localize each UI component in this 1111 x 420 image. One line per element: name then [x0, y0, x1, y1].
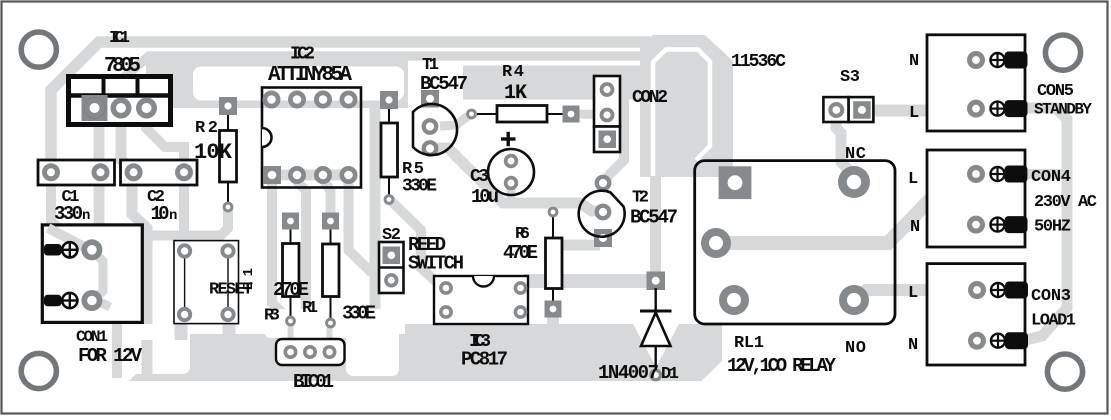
svg-text:IC1: IC1 [109, 29, 130, 48]
wire T2 emitter left under R6 [554, 240, 600, 251]
connector CON3 body [927, 264, 1025, 365]
svg-text:D1: D1 [661, 365, 679, 384]
wire S3 left pad down to relay NC [836, 112, 853, 175]
pad CON5-N entry [1005, 52, 1028, 69]
CON5-N screw [991, 53, 1005, 67]
wire R6 bottom pad into ground [547, 303, 559, 336]
wire R5 bottom pad to IC3 pin1 [389, 199, 447, 288]
wire band C to pour (R4 region) [463, 66, 648, 100]
pad RESET-4 [220, 307, 235, 322]
relay RL1 body [695, 161, 895, 324]
resistor R1 [323, 222, 340, 319]
svg-text:RL1: RL1 [734, 334, 764, 353]
pad IC2-5 [340, 91, 358, 109]
node slab window keepout [193, 67, 404, 101]
pad CON5-L entry [1005, 100, 1028, 117]
pad S3-2 square [853, 101, 871, 119]
pad R6 bottom square [545, 301, 562, 318]
wire C3 minus stub down [507, 183, 516, 202]
pad R2 top square [219, 97, 237, 115]
svg-text:LOAD1: LOAD1 [1031, 312, 1076, 331]
pad T2-emitter square [594, 229, 612, 247]
transistor T1 body BC547 [413, 104, 457, 155]
node ground keepout left of IC3 [346, 309, 399, 376]
wire R2 top pad joins slab (stub) [223, 99, 233, 107]
wire CON2 pin3 down to T2 collector [604, 99, 624, 182]
svg-text:R1: R1 [302, 299, 318, 318]
svg-text:T2: T2 [632, 189, 649, 208]
pad RESET-3 [177, 307, 192, 322]
node pour clearance gap [653, 50, 710, 177]
pad R6 top [548, 207, 559, 218]
svg-text:12V,1CO RELAY: 12V,1CO RELAY [727, 355, 837, 377]
pad C3-minus [504, 176, 518, 190]
CON4-N screw [991, 218, 1005, 232]
mounting hole top-left [21, 32, 56, 67]
pad T2-base [595, 204, 612, 221]
capacitor C3 body [488, 149, 534, 195]
wire bottom ground band [129, 324, 702, 381]
wire IC2 pin4 down to S2 column [349, 179, 373, 273]
svg-text:FOR 12V: FOR 12V [78, 345, 143, 367]
pad CON1-2 [81, 290, 102, 311]
pad CON2-1 [600, 82, 615, 97]
svg-text:10u: 10u [471, 186, 499, 208]
svg-text:CON4: CON4 [1031, 168, 1071, 187]
svg-text:CON5: CON5 [1037, 82, 1074, 101]
CON5-L screw [991, 102, 1005, 116]
pushbutton RESET body [174, 241, 239, 324]
pad CON4-L [967, 165, 985, 183]
svg-text:1K: 1K [504, 82, 527, 105]
wire CON1 pad1 diagonal (inside body) [48, 228, 90, 250]
pad T1-emitter [422, 140, 439, 157]
svg-text:7805: 7805 [104, 55, 141, 78]
wire reset column re-entry [142, 340, 153, 378]
resistor R4 [477, 106, 566, 123]
pad CON3-L [968, 281, 986, 299]
pad CON4-L entry [1005, 166, 1028, 183]
pad CON3-L entry [1005, 282, 1028, 299]
pad T1-collector square [421, 90, 439, 108]
pad R1 top square [322, 213, 339, 230]
optocoupler IC3 body PC817 [434, 276, 528, 324]
pad R3 top square [282, 213, 299, 230]
wire S3 right pad to CON5 L [866, 105, 972, 117]
svg-text:n: n [82, 208, 90, 224]
pad CON3-N entry [1005, 332, 1028, 349]
mounting hole bottom-right [1047, 354, 1082, 389]
svg-text:L: L [909, 104, 919, 123]
svg-text:10K: 10K [194, 140, 233, 165]
CON3-L screw [991, 283, 1005, 297]
pad RESET-2 [220, 243, 235, 258]
CON1 wire-entry wedge 2 [44, 295, 62, 307]
svg-text:CON1: CON1 [76, 328, 108, 346]
wire T1 emitter to T2 base [432, 148, 601, 211]
pad IC2-2 [288, 166, 306, 184]
svg-text:R4: R4 [502, 63, 524, 82]
wire CON1 band re-entry [112, 340, 122, 378]
wire CON1 pad1 to pad2 [94, 253, 103, 299]
svg-text:L: L [908, 284, 918, 303]
wire slab around IC2 window [146, 52, 408, 108]
IC2 notch [262, 128, 272, 147]
wire IC2 pin2 down to BIC01 middle pad [296, 180, 310, 351]
pad IC1-2 [111, 98, 132, 119]
pad CON2-2 [600, 108, 615, 123]
pad S3-1 [828, 102, 844, 118]
svg-text:NO: NO [845, 339, 866, 358]
CON3-N screw [991, 334, 1005, 348]
svg-text:STANDBY: STANDBY [1034, 101, 1092, 119]
transistor T2 body BC547 [579, 191, 625, 237]
mounting hole bottom-left [21, 353, 56, 388]
svg-text:330E: 330E [342, 303, 376, 325]
wire IC1 pad2 to C2 left pad and down right of CON1 [121, 123, 147, 378]
wire CON1 pad2 down to ground band [93, 301, 117, 378]
svg-text:IC2: IC2 [290, 45, 315, 65]
svg-text:ATTINY85A: ATTINY85A [268, 64, 352, 87]
switch S2 body [379, 242, 404, 293]
pad IC3-4 [514, 281, 528, 295]
pad CON4-N [967, 216, 985, 234]
pad C3-plus [504, 154, 518, 168]
svg-text:N: N [908, 336, 918, 355]
pad R3 bottom [285, 316, 296, 327]
wire T1 base to R4 left pad [440, 116, 468, 126]
pad R4 right square [563, 106, 580, 123]
pad BIC01-3 [323, 345, 337, 359]
pad BIC01-1 [284, 345, 298, 359]
connector CON5 body [927, 35, 1025, 131]
svg-text:230V AC: 230V AC [1034, 193, 1097, 212]
CON1 screw symbol 2 [62, 293, 77, 308]
pad CON1-1 [81, 239, 102, 260]
wire relay coil pin to CON4 L [716, 174, 1004, 243]
svg-text:10: 10 [151, 203, 170, 225]
svg-text:BC547: BC547 [420, 73, 468, 95]
regulator IC1 body 7805 [68, 76, 171, 125]
svg-text:BC547: BC547 [630, 207, 678, 229]
pad IC2-8 [263, 91, 281, 109]
wire C1 left pad into CON1 pad1 diagonal [51, 170, 90, 250]
wire IC3 pin3 into ground [516, 316, 526, 336]
pad IC1-3 [136, 98, 157, 119]
svg-text:NC: NC [845, 145, 866, 164]
pad S2-1 square [383, 247, 401, 265]
wire pour polygon near relay [640, 35, 733, 177]
svg-text:L: L [908, 170, 918, 189]
pad S2-2 [384, 273, 398, 287]
wire R1 pad to BIC01 pin3 [327, 326, 333, 347]
pad CON5-L [967, 100, 985, 118]
pad C2-1 [125, 163, 143, 181]
node ground keepout near CON1 [124, 324, 190, 374]
pad IC2-6 [314, 91, 332, 109]
pad RL1 coil- [701, 228, 731, 258]
IC IC2 ATTINY85A body [262, 88, 361, 188]
pad IC3-1 [439, 281, 453, 295]
wire R4 right pad to CON2 pin2 [573, 110, 604, 120]
svg-text:SWITCH: SWITCH [408, 253, 464, 275]
wire ground band right lobe under D1 [630, 324, 722, 381]
wire IC3 pin4 to D1 anode pad [524, 274, 652, 288]
wire relay NO pad to CON3 L [855, 290, 974, 298]
switch S3 body [823, 97, 873, 122]
pad C1-1 [42, 163, 60, 181]
svg-text:270E: 270E [273, 279, 309, 301]
wire CON5 L feed to right bus [1021, 108, 1067, 341]
node ground keepout notch at D1 [633, 324, 679, 367]
svg-text:PC817: PC817 [461, 349, 508, 371]
CON1 screw symbol 1 [62, 242, 77, 257]
svg-text:CON3: CON3 [1031, 287, 1071, 306]
wire R3 pad to BIC01 pin1 [288, 324, 294, 347]
pad D1 cathode square [647, 272, 666, 291]
resistor R2 [220, 112, 237, 203]
capacitor C1 body [38, 160, 115, 185]
connector CON1 body [42, 225, 142, 323]
resistor R5 [381, 105, 398, 196]
wire right bus stub to CON4 L [1028, 169, 1063, 179]
wire IC1 pad1 to C1 right pad [94, 123, 105, 224]
wire top rail A from C1 to power pour [51, 42, 650, 170]
pad CON5-N [967, 51, 985, 69]
pad D1 anode [649, 369, 662, 382]
wire IC2 bottom pads strip [262, 170, 352, 181]
IC3 notch [473, 276, 494, 287]
pad CON3-N [968, 332, 986, 350]
svg-text:CON2: CON2 [632, 88, 668, 108]
pad IC2-3 [314, 166, 332, 184]
C3 plus sign [501, 132, 516, 146]
svg-text:S3: S3 [840, 68, 860, 87]
wire R2 bottom pad left to reset column [152, 205, 228, 236]
pad IC3-3 [514, 305, 528, 319]
pad R5 top square [380, 91, 398, 109]
pad CON2-3 square [599, 131, 617, 149]
capacitor C2 body [121, 160, 198, 185]
CON4-L screw [991, 167, 1005, 181]
node ground keepout around R3 R1 pads [264, 309, 352, 338]
pad BIC01-2 [303, 345, 317, 359]
connector CON2 body [594, 76, 620, 152]
wire C2 right pad up toward IC1 pad3 [146, 112, 184, 232]
svg-text:R3: R3 [264, 307, 280, 326]
svg-text:N: N [909, 52, 919, 71]
svg-text:11536C: 11536C [731, 52, 786, 72]
connector BIC01 body [276, 339, 345, 365]
CON1 wire-entry wedge 1 [44, 244, 62, 256]
svg-text:330E: 330E [402, 177, 437, 197]
wire RESET right pad into ground [223, 316, 236, 340]
wire CON1 pad1-pad2 link (inside body) [94, 253, 110, 307]
resistor R3 [283, 222, 300, 317]
svg-text:N: N [910, 218, 920, 237]
svg-text:470E: 470E [503, 242, 538, 264]
resistor R6 [546, 215, 563, 306]
svg-text:1N4007: 1N4007 [598, 362, 659, 384]
wire rail B from IC1 to pour [122, 56, 648, 79]
pad C1-2 [92, 163, 110, 181]
pad RL1 COM [719, 285, 749, 315]
pad IC1-1 square [82, 95, 108, 121]
pad T2-collector [595, 175, 612, 192]
pad IC3-2 [439, 305, 453, 319]
pad IC2-4 [340, 166, 358, 184]
svg-text:S2: S2 [382, 226, 401, 245]
pad R5 bottom [384, 194, 395, 205]
pad R2 bottom [223, 202, 234, 213]
pad R4 left [466, 109, 477, 120]
wire IC2 pin1 down to R3 bottom pad [272, 179, 290, 320]
wire IC3 pin2 into ground [441, 316, 451, 336]
pad IC1-1 [84, 98, 105, 119]
svg-text:C3: C3 [470, 167, 489, 187]
pad RL1 NC [838, 166, 870, 198]
pad C2-2 [175, 163, 193, 181]
pad CON4-N entry [1005, 216, 1028, 233]
svg-text:330: 330 [54, 203, 83, 225]
pad IC2-1 square [263, 166, 281, 184]
pad IC2-7 [288, 91, 306, 109]
pad RL1 coil+ square [719, 166, 752, 199]
svg-text:BIC01: BIC01 [293, 371, 334, 393]
wire IC2 pin3 to R1 top pad [323, 179, 331, 214]
connector CON4 body [927, 150, 1025, 247]
D1 symbol [640, 288, 672, 370]
svg-text:50HZ: 50HZ [1034, 218, 1071, 237]
wire vertical column left of S2 [370, 104, 381, 311]
pad RESET-1 [177, 243, 192, 258]
svg-text:n: n [169, 208, 177, 224]
mounting hole top-right [1045, 35, 1080, 70]
wire RESET left pad into ground [175, 316, 188, 340]
pad T1-base [422, 118, 439, 135]
pad R1 bottom [325, 318, 336, 329]
pad RL1 NO [839, 285, 869, 315]
wire pour left leg down to D1 [650, 168, 661, 285]
